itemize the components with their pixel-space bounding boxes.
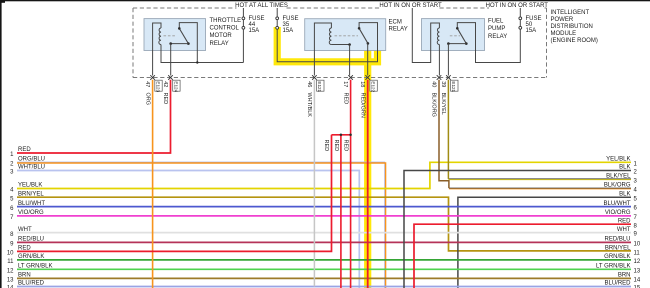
svg-text:POWER: POWER [551,17,574,23]
fuse F50 bottom terminal circle [519,26,522,29]
svg-text:13: 13 [7,278,14,284]
svg-text:RELAY: RELAY [210,41,229,47]
svg-text:RED: RED [18,147,31,153]
svg-text:LT GRN/BLK: LT GRN/BLK [18,264,52,270]
wire GRN/BLK row 11/12 (continuous) [17,259,631,261]
relay K1 coil feed wire (pin to coil top) [153,23,161,76]
svg-text:RELAY: RELAY [488,34,507,40]
relay K1 output wire down to connector [170,44,172,76]
relay K3 mechanical link (dashed) [450,35,460,37]
fuse F50 top terminal circle [519,17,522,20]
relay K2 switch bottom contact dot [367,42,370,45]
wire RED branch middle to page bottom [340,135,342,288]
relay K3 coil output wire down to connector (BLK/ORG 40) [438,45,440,76]
relay K1 coil [159,28,161,45]
fuel pump relay box (K3) [422,19,485,51]
svg-text:MOTOR: MOTOR [210,33,233,39]
wire BLK/ORG row 4 right orange stripe [449,188,631,190]
wire BRN row 13/14 (continuous) [17,277,631,279]
inline connector symbol pin 17 [348,75,353,80]
wire WHT/BLK 46 vertical down to BLU/RED row [313,80,315,287]
wire RED/BLU row 9/10 (continuous) [17,241,631,243]
svg-text:RED: RED [18,246,31,252]
fuse 35 feed from HOT IN ON OR START [276,8,278,17]
svg-text:WHT: WHT [18,227,32,233]
svg-text:10: 10 [634,242,641,248]
svg-text:11: 11 [7,259,14,265]
svg-text:YEL/BLK: YEL/BLK [606,157,630,163]
svg-text:WHT/BLU: WHT/BLU [18,165,45,171]
svg-text:THROTTLE: THROTTLE [210,18,242,24]
fuse F35 element [276,20,278,27]
wire ORG 47 vertical to page bottom [152,80,154,288]
svg-text:11: 11 [634,251,641,257]
svg-text:GRN/BLK: GRN/BLK [604,254,630,260]
wire BLK/YEL 39 vertical to row 3 [447,80,449,179]
svg-text:GRN/BLK: GRN/BLK [18,254,44,260]
svg-text:39: 39 [440,81,446,87]
svg-text:HOT AT ALL TIMES: HOT AT ALL TIMES [235,3,288,9]
svg-text:47: 47 [144,81,150,87]
relay K3 coil [437,28,439,45]
connector ID box E122 [370,80,377,92]
svg-text:46: 46 [306,81,312,87]
relay K2 coil feed wire (WHT/BLK pin to coil top) [314,23,331,76]
connector ID box E121 [317,80,324,92]
wire WHT/BLU row 3 left + drop to page bottom [17,171,359,288]
relay K1 coil bottom wire to fuse 44 bus [161,45,243,63]
IPDM dashed box top edge (with gaps for HOT labels) [133,7,547,9]
wire BLK row 2 right and drop to page bottom [404,171,631,288]
fuse 50 feed from HOT IN ON OR START [519,8,521,17]
relay K2 coil bottom link to RED output pin [331,44,349,46]
svg-text:E121: E121 [317,81,322,92]
svg-text:DISTRIBUTION: DISTRIBUTION [551,24,593,30]
svg-text:BRN/YEL: BRN/YEL [605,246,631,252]
fuse F44 element [242,20,244,27]
svg-text:WHT: WHT [617,227,631,233]
svg-text:BRN/YEL: BRN/YEL [18,191,44,197]
inline connector symbol E123 pin 47 [150,75,155,80]
wire BLK/YEL row 3 right yellow stripe [448,179,631,181]
wire RED junction bar [332,134,351,136]
svg-text:RED/BLU: RED/BLU [604,237,630,243]
relay K1 switch bottom contact dot [187,42,190,45]
relay K2 coil output wire down to connector (RED 17) [349,45,351,76]
svg-text:RED: RED [342,93,348,105]
wire BLK row 5 right dropping to page bottom [458,197,631,288]
wire BRN/YEL row 5 left dropping to right row 11 [17,197,631,251]
svg-text:RED: RED [323,140,329,152]
highlighted circuit trace: fuse 35 feed to ECM relay (yellow overlay) [277,27,377,62]
relay K3 ignition feed from HOT IN ON OR START [412,8,439,63]
throttle control motor relay box (K1) [144,19,206,51]
wire RED branch to left RED row 10 [17,135,332,252]
fuse F35 output wire to ECM relay switch (highlighted) [277,29,377,62]
wire BLK/ORG row 4 right (from BLK/ORG 40 jog) [449,187,631,189]
wire RED/GRN 18 vertical to page bottom (highlighted) [367,80,369,288]
relay K3 switch bottom contact dot [465,42,468,45]
svg-text:E121: E121 [451,81,456,92]
svg-text:HOT IN ON OR START: HOT IN ON OR START [486,3,549,9]
svg-text:BLU/RED: BLU/RED [604,281,631,287]
svg-text:ECM: ECM [389,19,402,25]
relay K3 switch top contact dot [456,27,459,30]
svg-text:18: 18 [359,81,365,87]
inline connector symbol E122 pin 18 [365,75,370,80]
relay K1 junction dot on fuse 44 bus [196,61,198,63]
relay K2 switch output wire down to connector (RED/GRN 18) [367,43,369,75]
wire ORG/BLU row 2 left, blue stripe [17,162,385,288]
fuse F44 top terminal circle [242,17,245,20]
wire BLU/WHT row 6 (continuous) [17,206,631,208]
svg-text:INTELLIGENT: INTELLIGENT [551,10,590,16]
connector ID box E123 [155,80,162,92]
svg-text:17: 17 [342,81,348,87]
relay K2 mechanical link (dashed) [335,35,359,37]
svg-text:CONTROL: CONTROL [210,26,240,32]
svg-text:YEL/BLK: YEL/BLK [18,183,42,189]
wire RED 17 vertical from connector to junction [350,80,352,135]
relay K2 switch feed riser from fuse 35 [359,23,377,51]
IPDM dashed box right edge [546,8,548,78]
inline connector symbol pin 40 [437,75,442,80]
relay K3 switch output link [448,43,466,45]
wire VIO/ORG row 7 (continuous) [17,215,631,217]
svg-text:14: 14 [634,278,641,284]
junction dot RED bar right [349,134,352,137]
svg-text:15A: 15A [283,28,294,34]
wire YEL/BLK row 4 left rising to right row 1 [17,162,631,188]
wire BLK/YEL row 3 right (from connector E121 pin 39) [448,178,631,180]
relay K2 coil [329,28,331,45]
svg-text:RED/BLU: RED/BLU [18,237,44,243]
wire BLK/ORG 40 vertical with jog to row 4 [439,80,449,188]
svg-text:BLU/WHT: BLU/WHT [18,201,45,207]
svg-text:13: 13 [634,268,641,274]
svg-text:12: 12 [7,269,14,275]
svg-text:BLK/YEL: BLK/YEL [606,174,631,180]
svg-text:BRN: BRN [18,273,31,279]
svg-text:PUMP: PUMP [488,26,505,32]
relay K3 switch feed wire to fuse 50 [457,23,520,63]
relay K2 switch top contact dot [358,27,361,30]
svg-text:(ENGINE ROOM): (ENGINE ROOM) [551,38,598,44]
page border corner mark [0,0,5,3]
junction dot RED bar middle [340,134,343,137]
svg-text:15A: 15A [249,28,260,34]
svg-text:BLK: BLK [619,191,630,197]
relay K3 output wire down to connector (BLK/YEL 39) [447,44,449,76]
svg-text:E122: E122 [371,81,376,92]
svg-text:WHT/BLK: WHT/BLK [306,93,312,118]
svg-text:15A: 15A [526,28,537,34]
svg-text:HOT IN ON OR START: HOT IN ON OR START [379,3,442,9]
svg-text:BRN: BRN [618,273,631,279]
highlighted circuit trace: ECM relay output RED/GRN wire (yellow overlay) [364,51,371,288]
inline connector symbol E121 pin 39 [446,75,451,80]
svg-text:RED: RED [618,218,631,224]
svg-text:RED: RED [162,93,168,105]
ECM relay box (K2) [305,19,386,51]
relay K1 switch blade [179,28,188,43]
svg-text:LT GRN/BLK: LT GRN/BLK [596,264,630,270]
svg-text:RED: RED [343,140,349,152]
relay K2 switch blade [359,28,368,43]
svg-text:BLK: BLK [619,165,630,171]
relay K1 switch feed riser from fuse 44 bus [179,23,197,63]
svg-text:40: 40 [430,81,436,87]
fuse 44 feed from HOT AT ALL TIMES [242,8,244,17]
svg-text:RED/GRN: RED/GRN [359,93,365,118]
relay K2 coil output contact dot [348,43,351,46]
svg-text:RED: RED [333,140,339,152]
svg-text:RELAY: RELAY [389,26,408,32]
wire RED branch right to page bottom [350,135,352,288]
connector ID box E124 [173,80,180,92]
svg-text:E123: E123 [155,81,160,92]
page border top edge [0,0,650,1]
fuse F44 output wire down to bus [242,29,244,62]
fuse F50 element [519,20,521,27]
IPDM dashed box left edge [132,8,134,78]
wire LT GRN/BLK row 12/13 (continuous) [17,268,631,270]
svg-text:BLU/WHT: BLU/WHT [604,201,631,207]
inline connector symbol E124 pin 42 [168,75,173,80]
wire WHT row 8/9 (continuous) [17,232,631,234]
svg-text:10: 10 [7,251,14,257]
connector ID box E121 [451,80,458,92]
relay K1 switch top contact dot [178,27,181,30]
page border left edge [0,0,2,288]
svg-text:ORG: ORG [144,93,150,106]
fuse F44 bottom terminal circle [242,26,245,29]
relay K1 output contact dot [169,42,172,45]
relay K3 output contact dot [447,42,450,45]
wire RED row 8 right and drop to page bottom [414,224,631,288]
wire ORG/BLU row 2 left, orange body + drop to page bottom [17,163,386,288]
svg-text:ORG/BLU: ORG/BLU [18,157,45,163]
relay K1 switch output link [171,43,189,45]
svg-text:VIO/ORG: VIO/ORG [18,210,44,216]
svg-text:BLK/YEL: BLK/YEL [440,93,446,115]
svg-text:12: 12 [634,259,641,265]
svg-text:42: 42 [162,81,168,87]
svg-text:BLK/ORG: BLK/ORG [604,183,631,189]
IPDM dashed box bottom edge [133,77,547,79]
inline connector symbol E121 pin 46 [312,75,317,80]
wire RED row 1 left (to K1 output connector) [17,80,171,153]
fuse F35 bottom terminal circle [276,26,279,29]
svg-text:BLU/RED: BLU/RED [18,281,45,287]
relay K3 switch blade [457,28,466,43]
svg-text:FUEL: FUEL [488,18,504,24]
svg-text:E124: E124 [173,81,178,92]
svg-text:MODULE: MODULE [551,31,577,37]
fuse F35 top terminal circle [276,17,279,20]
relay K1 mechanical link (dashed) [164,35,177,37]
svg-text:BLK/ORG: BLK/ORG [431,93,437,117]
svg-text:VIO/ORG: VIO/ORG [605,210,631,216]
wire BLU/RED row 14/15 (continuous) [17,286,631,288]
